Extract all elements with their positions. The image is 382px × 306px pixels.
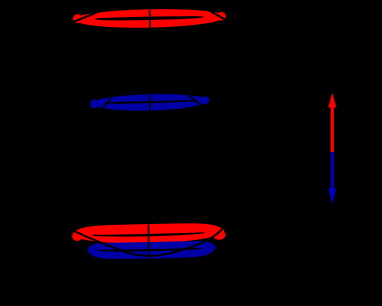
T1 left rim diagonal (74, 11, 101, 22)
T2 right cap (201, 96, 209, 104)
T2 right rim diagonal (189, 95, 205, 108)
T2 left rim diagonal (100, 98, 111, 111)
T3 blue torus (87, 241, 216, 260)
top torus T1 (red ring current loop) (73, 8, 226, 29)
T1 right rim diagonal (206, 9, 225, 21)
T2 center vertical line (149, 95, 151, 110)
T1 hole lens (96, 16, 202, 20)
arrow red head up (328, 93, 336, 108)
T3 red hole lens (93, 232, 205, 237)
T3 red body lens (72, 222, 224, 245)
T3 red left cap (72, 232, 82, 241)
T2 hole lens (105, 100, 195, 103)
T3 red torus (72, 222, 226, 245)
T3 blue left cap (88, 246, 95, 253)
T3 blue hole lens (98, 248, 202, 252)
T3 blue body lens (87, 241, 216, 260)
arrow blue lower shaft (331, 152, 334, 189)
arrow red upper shaft (331, 105, 334, 152)
T2 left cap (90, 99, 99, 108)
T3 blue right cap (204, 245, 212, 253)
T1 red body lens (73, 8, 225, 29)
double-headed arrow (magnetic moment) (328, 93, 336, 205)
T1 right cap (217, 12, 226, 21)
arrow blue head down (328, 188, 336, 204)
middle torus T2 (blue ring current loop) (90, 93, 210, 112)
T2 blue body lens (91, 93, 208, 112)
T1 center vertical line (149, 9, 151, 27)
T3 big sweeping arc (73, 224, 226, 255)
bottom combined tori T3 (72, 222, 226, 260)
T3 center vertical line (148, 225, 150, 258)
T3 red right cap (212, 230, 225, 240)
T1 left cap (73, 14, 82, 23)
